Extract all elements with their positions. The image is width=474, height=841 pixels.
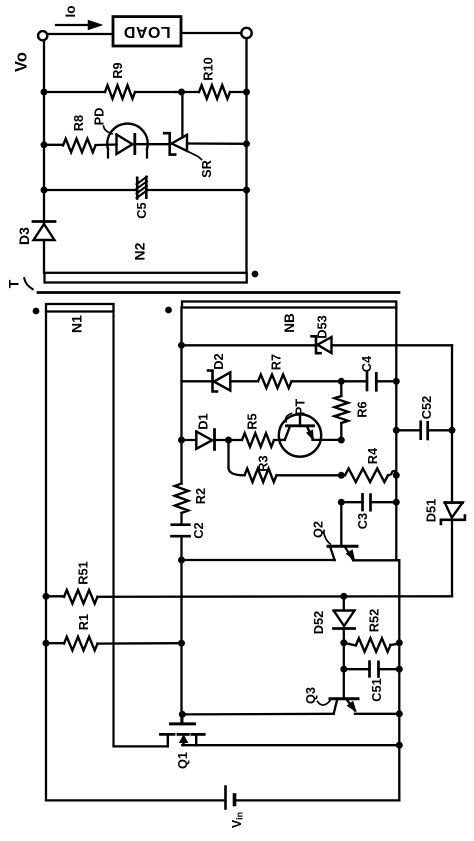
output terminal Vo: [38, 31, 47, 40]
capacitor C2: [172, 513, 207, 723]
node: [179, 711, 186, 718]
svg-text:Q1: Q1: [175, 752, 190, 769]
resistor R3: [245, 455, 342, 482]
battery Vin: [226, 787, 245, 829]
node (NB polarity): [165, 307, 172, 314]
wire: [182, 713, 333, 716]
svg-text:Vo: Vo: [13, 52, 31, 72]
svg-text:PD: PD: [92, 108, 107, 126]
node: [225, 437, 232, 444]
svg-text:PT: PT: [293, 399, 308, 416]
output terminal (return): [241, 28, 251, 38]
node: [338, 378, 345, 385]
svg-text:R51: R51: [76, 561, 91, 584]
diode D3: [16, 222, 55, 273]
wire: [229, 440, 245, 475]
node: [178, 342, 185, 349]
resistor R6: [335, 381, 370, 440]
winding N1: [46, 304, 114, 333]
wire: [343, 643, 345, 698]
wire: [355, 713, 399, 715]
svg-text:Q3: Q3: [303, 687, 318, 704]
node: [338, 499, 345, 506]
svg-text:Vin: Vin: [230, 812, 245, 828]
winding NB: [182, 302, 396, 333]
wire: [353, 559, 399, 561]
zener D53: [312, 315, 453, 353]
resistor R1: [46, 614, 182, 651]
node: [393, 499, 400, 506]
svg-text:R1: R1: [76, 614, 91, 630]
capacitor C4: [341, 355, 396, 390]
svg-text:C3: C3: [355, 513, 370, 529]
wire: [181, 32, 242, 34]
node: [396, 710, 403, 717]
resistor R10: [199, 57, 247, 99]
wire: [398, 560, 400, 800]
resistor R7: [258, 354, 341, 388]
label Vo: [13, 52, 31, 72]
svg-text:N1: N1: [69, 315, 85, 333]
svg-text:R4: R4: [365, 447, 380, 464]
node: [178, 640, 185, 647]
wire: [45, 312, 47, 801]
photodiode PD: [107, 124, 169, 158]
wire: [114, 312, 168, 747]
wire: [182, 344, 315, 346]
capacitor C3: [341, 494, 396, 529]
node: [340, 639, 347, 646]
resistor R5: [229, 413, 285, 446]
node: [243, 89, 250, 96]
svg-text:R7: R7: [269, 354, 284, 370]
svg-text:R52: R52: [366, 609, 381, 632]
svg-text:D51: D51: [424, 499, 439, 522]
diode D52: [311, 596, 355, 643]
svg-text:Io: Io: [63, 6, 78, 18]
node: [449, 427, 456, 434]
node: [396, 639, 403, 646]
svg-text:N2: N2: [132, 242, 148, 260]
svg-text:C4: C4: [359, 355, 374, 372]
resistor R4: [341, 447, 396, 482]
wire: [46, 799, 226, 801]
diode D1: [182, 413, 229, 449]
wire: [180, 308, 182, 484]
wire: [395, 308, 397, 561]
svg-text:R2: R2: [193, 488, 208, 504]
resistor R8: [44, 115, 117, 152]
wire: [182, 744, 399, 746]
current arrow Io: [56, 21, 101, 29]
svg-text:SR: SR: [199, 160, 214, 178]
shunt regulator SR: [164, 92, 246, 155]
capacitor C5: [44, 177, 247, 219]
node: [243, 140, 250, 147]
node: [178, 89, 185, 96]
node: [41, 187, 48, 194]
node (N1 polarity): [33, 308, 40, 315]
svg-text:R10: R10: [201, 57, 216, 80]
node: [393, 427, 400, 434]
svg-text:R8: R8: [71, 115, 86, 131]
node: [393, 472, 400, 479]
resistor R51: [46, 561, 452, 603]
wire: [43, 40, 45, 221]
svg-text:D53: D53: [315, 315, 330, 338]
wire: [48, 33, 114, 35]
svg-text:R6: R6: [354, 401, 369, 417]
transformer T core: [38, 291, 399, 294]
node: [338, 472, 345, 479]
svg-text:C51: C51: [369, 678, 384, 701]
capacitor C52: [396, 396, 452, 439]
label Io: [63, 6, 78, 18]
label PD: [92, 108, 113, 134]
svg-text:Q2: Q2: [311, 521, 326, 538]
node: [41, 141, 48, 148]
node: [340, 593, 347, 600]
svg-text:D3: D3: [16, 227, 32, 245]
label T: [6, 278, 33, 289]
node: [178, 557, 185, 564]
svg-text:C5: C5: [134, 202, 149, 218]
svg-text:T: T: [6, 279, 22, 288]
wire: [245, 38, 247, 273]
resistor R9: [44, 62, 175, 98]
svg-text:C52: C52: [419, 396, 434, 419]
svg-text:D1: D1: [196, 413, 211, 429]
transistor Q3: [303, 687, 358, 713]
svg-text:R9: R9: [110, 62, 125, 78]
node: [41, 89, 48, 96]
phototransistor PT: [279, 414, 342, 456]
node: [338, 437, 345, 444]
svg-text:D52: D52: [311, 611, 326, 634]
node: [43, 593, 50, 600]
svg-text:R5: R5: [245, 413, 260, 429]
resistor R2: [175, 484, 208, 514]
wire: [182, 559, 335, 561]
label SR: [188, 152, 214, 178]
svg-text:NB: NB: [282, 313, 297, 333]
svg-text:LOAD: LOAD: [123, 23, 170, 40]
svg-text:R3: R3: [256, 455, 271, 471]
svg-text:D2: D2: [211, 353, 226, 369]
node (N2 polarity): [252, 271, 259, 278]
node: [393, 378, 400, 385]
svg-text:C2: C2: [191, 522, 206, 538]
wire: [235, 799, 400, 801]
label PT: [286, 399, 308, 422]
zener D51: [424, 499, 465, 597]
winding N2: [45, 242, 247, 282]
transistor Q2: [311, 502, 358, 560]
resistor R52: [344, 609, 400, 652]
wire: [175, 91, 199, 93]
capacitor C51: [344, 662, 400, 702]
node: [340, 666, 347, 673]
load box: [113, 17, 181, 46]
node: [178, 437, 185, 444]
node: [43, 640, 50, 647]
node: [243, 187, 250, 194]
node: [396, 742, 403, 749]
wire: [451, 345, 453, 502]
node: [396, 666, 403, 673]
zener D2: [182, 353, 259, 391]
transistor Q1 (MOSFET): [161, 714, 205, 769]
